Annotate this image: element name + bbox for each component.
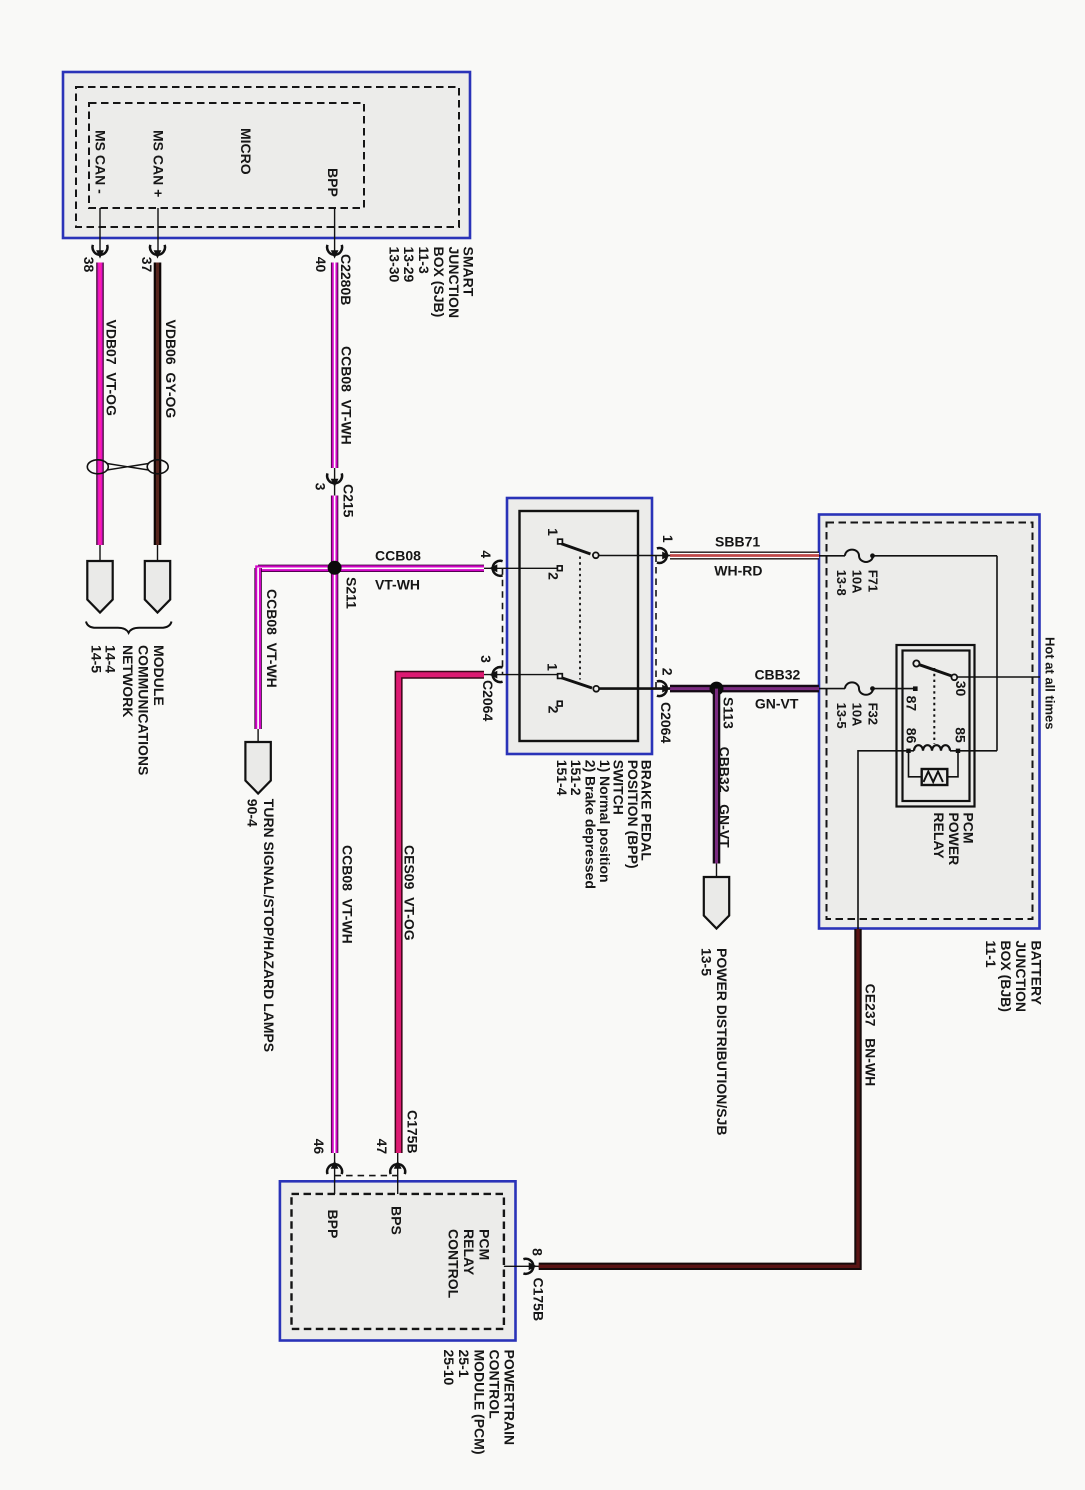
connector C175B pin 47	[390, 1160, 405, 1174]
BJB internal: coil right lead to hot bus	[950, 750, 997, 752]
terminal: module communications network wire VDB07	[87, 561, 112, 613]
SJB outer dashed boundary	[76, 87, 459, 227]
twisted pair loop left	[87, 460, 108, 474]
svg-text:C2280B: C2280B	[338, 254, 354, 305]
wire CCB08 VT-WH from SJB pin 40 to C215	[331, 263, 338, 469]
svg-text:S211: S211	[344, 577, 360, 609]
svg-text:MS CAN +: MS CAN +	[151, 130, 167, 197]
svg-text:MODULE: MODULE	[151, 645, 167, 706]
pin stub SJB pin 40	[334, 208, 336, 252]
svg-text:BPP: BPP	[325, 168, 341, 197]
BPP switch 1: blade	[562, 544, 591, 554]
connector dashed link C175B (pins 46-47)	[335, 1175, 398, 1177]
svg-text:VDB07 VT-OG: VDB07 VT-OG	[104, 320, 120, 417]
svg-text:PCM: PCM	[477, 1229, 493, 1260]
svg-text:40: 40	[313, 257, 329, 273]
svg-text:37: 37	[139, 257, 155, 273]
svg-text:C175B: C175B	[405, 1110, 421, 1154]
svg-text:MS CAN -: MS CAN -	[93, 130, 109, 194]
connector C175B pin 8	[523, 1259, 537, 1274]
pin line BPP pin 4	[484, 567, 559, 569]
relay economizer resistor box	[922, 769, 948, 785]
svg-text:NETWORK: NETWORK	[120, 645, 136, 717]
switch box: BRAKE PEDAL POSITION (BPP) SWITCH	[507, 498, 652, 754]
svg-text:13-5: 13-5	[699, 948, 715, 976]
connector C2064 pin 2	[657, 681, 671, 696]
pin line BPP pin 3	[484, 674, 557, 676]
svg-text:F32: F32	[866, 703, 881, 725]
svg-text:C215: C215	[340, 484, 356, 518]
svg-text:13-8: 13-8	[834, 570, 849, 596]
wire CBB32 GN-VT branch down to POWER DISTRIBUTION terminal	[713, 689, 721, 864]
svg-text:4: 4	[478, 550, 494, 558]
wire VDB07 VT-OG (MS CAN -)	[96, 263, 104, 546]
svg-text:CCB08 VT-WH: CCB08 VT-WH	[264, 589, 280, 688]
svg-text:BPP: BPP	[325, 1210, 341, 1239]
svg-text:2: 2	[659, 668, 675, 676]
junction S113	[710, 682, 724, 696]
svg-text:47: 47	[374, 1139, 390, 1155]
pin line BPP pin 1	[599, 555, 670, 557]
BJB internal: hot at all times line to relay contact 30	[957, 676, 1040, 678]
terminal: turn signal/stop/hazard lamps	[245, 742, 270, 794]
pin stub SJB pin 37	[157, 208, 159, 252]
relay box outer: PCM POWER RELAY	[897, 645, 975, 807]
svg-text:CBB32 GN-VT: CBB32 GN-VT	[717, 747, 733, 849]
svg-text:COMMUNICATIONS: COMMUNICATIONS	[136, 645, 152, 775]
svg-text:MODULE (PCM): MODULE (PCM)	[471, 1350, 487, 1455]
wire VDB06 GY-OG (MS CAN +)	[154, 263, 162, 546]
svg-text:CBB32: CBB32	[754, 667, 800, 683]
svg-text:Hot at all times: Hot at all times	[1043, 637, 1058, 729]
svg-text:CONTROL: CONTROL	[446, 1229, 462, 1299]
pin stub SJB pin 38	[99, 208, 101, 252]
svg-text:C175B: C175B	[531, 1278, 547, 1322]
svg-text:RELAY: RELAY	[461, 1229, 477, 1276]
stub to terminal (turn signal branch)	[257, 729, 259, 742]
pin stub PCM pin 47	[397, 1153, 399, 1194]
wire CBB32 GN-VT from BPP pin 2 through S113 to BJB	[670, 685, 819, 693]
BJB dashed boundary	[827, 523, 1033, 920]
connector C2064 pin 1	[657, 548, 671, 563]
connector C2064 pin 3	[489, 667, 503, 682]
twisted pair loop right	[147, 460, 168, 474]
connector C2064 pin 4	[489, 561, 503, 576]
svg-text:90-4: 90-4	[245, 799, 261, 827]
BPP inner solid boundary	[520, 511, 639, 741]
junction S211	[328, 561, 342, 575]
connector dashed link C2064 right (pins 1-2)	[655, 556, 657, 689]
twisted pair crossing lines	[107, 464, 149, 471]
svg-text:POWER: POWER	[946, 812, 962, 865]
connector C215 pin 3	[327, 473, 342, 487]
svg-text:2: 2	[546, 706, 562, 714]
connector C175B pin 46	[327, 1160, 342, 1174]
svg-text:85: 85	[952, 727, 968, 743]
svg-text:TURN SIGNAL/STOP/HAZARD LAMPS: TURN SIGNAL/STOP/HAZARD LAMPS	[261, 799, 277, 1052]
BPP switch 2: common contact	[593, 686, 599, 692]
relay linkage dotted	[933, 668, 935, 744]
svg-text:1: 1	[545, 528, 561, 536]
svg-text:25-10: 25-10	[441, 1350, 457, 1386]
svg-text:MICRO: MICRO	[238, 128, 254, 175]
svg-text:C2064: C2064	[480, 680, 496, 721]
connector C2280B pin 38	[93, 245, 108, 259]
svg-text:30: 30	[953, 681, 969, 697]
module box: POWERTRAIN CONTROL MODULE (PCM)	[280, 1181, 516, 1340]
BJB internal: hot vertical bus	[996, 556, 998, 751]
svg-text:11-3: 11-3	[416, 247, 432, 274]
svg-text:11-1: 11-1	[983, 940, 999, 967]
relay contact 87 (square)	[913, 686, 918, 691]
relay coil	[914, 745, 950, 751]
BPP switch mechanical linkage (dotted)	[579, 557, 581, 680]
svg-text:C2064: C2064	[658, 702, 674, 743]
wire CCB08 VT-WH from C215 through S211 to PCM pin 46	[331, 496, 338, 1154]
svg-text:SBB71: SBB71	[715, 534, 760, 550]
svg-text:2: 2	[546, 572, 562, 580]
BJB internal: F71 feed line	[819, 555, 845, 557]
svg-text:10A: 10A	[850, 570, 865, 594]
wire CE237 BN-WH from BJB to PCM pin 8	[539, 929, 858, 1266]
wire SBB71 WH-RD from BPP pin 1 to BJB	[670, 552, 819, 560]
svg-text:86: 86	[904, 728, 920, 744]
connector dashed link C2064 left (pins 4-3)	[502, 568, 504, 674]
svg-text:CONTROL: CONTROL	[486, 1350, 502, 1420]
svg-text:1: 1	[545, 663, 561, 671]
BJB internal: F32 feed line	[819, 688, 845, 690]
relay box inner	[903, 651, 970, 802]
terminal: module communications network wire VDB06	[145, 561, 170, 613]
svg-text:46: 46	[311, 1139, 327, 1155]
svg-text:3: 3	[478, 655, 494, 663]
svg-text:10A: 10A	[850, 703, 865, 727]
svg-text:POWER DISTRIBUTION/SJB: POWER DISTRIBUTION/SJB	[714, 948, 730, 1135]
svg-text:F71: F71	[866, 570, 881, 592]
relay economizer resistor branch	[909, 751, 959, 777]
PCM dashed boundary	[292, 1194, 504, 1329]
svg-text:151-4: 151-4	[554, 760, 570, 796]
svg-text:RELAY: RELAY	[931, 812, 947, 859]
pin stub PCM pin 46	[334, 1153, 336, 1194]
svg-text:14-5: 14-5	[89, 645, 105, 673]
svg-text:BOX (BJB): BOX (BJB)	[998, 940, 1014, 1012]
svg-text:S113: S113	[720, 697, 736, 729]
relay blade	[919, 665, 952, 676]
svg-text:BATTERY: BATTERY	[1028, 940, 1044, 1005]
terminal: power distribution/SJB	[704, 877, 729, 929]
wire CCB08 VT-WH horizontal branch from left corner through S211 to BPP pin 4	[258, 568, 484, 572]
svg-text:1: 1	[660, 535, 676, 543]
svg-text:13-29: 13-29	[401, 247, 417, 283]
relay contact 30 circle	[951, 674, 957, 680]
relay coil junction squares	[906, 749, 910, 753]
wire CCB08 VT-WH left branch down to TURN SIGNAL lamps terminal	[254, 568, 261, 729]
connector C2280B pin 37	[150, 245, 165, 259]
svg-text:VDB06 GY-OG: VDB06 GY-OG	[163, 320, 179, 419]
wire CES09 VT-OG from BPP pin 3 to PCM pin 47	[399, 675, 484, 1153]
svg-text:JUNCTION: JUNCTION	[446, 247, 462, 319]
svg-text:CE237 BN-WH: CE237 BN-WH	[862, 984, 878, 1087]
brace under module communications terminals	[86, 622, 172, 633]
svg-text:BPS: BPS	[388, 1206, 404, 1235]
svg-text:CCB08 VT-WH: CCB08 VT-WH	[339, 346, 355, 445]
svg-text:CCB08: CCB08	[375, 548, 421, 564]
pin line PCM pin 8	[504, 1265, 539, 1267]
through line at C215	[334, 466, 336, 497]
svg-text:CES09 VT-OG: CES09 VT-OG	[402, 845, 418, 941]
svg-text:3: 3	[313, 483, 329, 491]
svg-text:25-1: 25-1	[456, 1350, 472, 1378]
pin line BPP pin 2	[599, 687, 670, 690]
module box: SMART JUNCTION BOX (SJB)	[63, 72, 470, 238]
connector C2280B pin 40	[327, 245, 342, 259]
BPP switch 1: common contact	[593, 552, 599, 558]
relay common contact circle	[913, 660, 919, 666]
svg-text:13-5: 13-5	[834, 703, 849, 729]
stub to terminal (power distribution branch)	[716, 864, 718, 878]
svg-text:8: 8	[530, 1248, 546, 1256]
fuse F71 element	[845, 550, 873, 562]
SJB inner dashed boundary (MICRO)	[89, 103, 364, 208]
svg-text:GN-VT: GN-VT	[755, 695, 799, 711]
svg-text:38: 38	[81, 257, 97, 273]
stub to terminal (VDB06)	[157, 545, 159, 562]
BPP switch 2 (bottom): throw contact 1	[558, 674, 563, 679]
svg-text:POWERTRAIN: POWERTRAIN	[502, 1350, 518, 1446]
svg-text:JUNCTION: JUNCTION	[1013, 940, 1029, 1012]
BPP switch 2: throw contact 2	[557, 701, 562, 706]
module box: BATTERY JUNCTION BOX (BJB)	[819, 515, 1040, 929]
svg-text:VT-WH: VT-WH	[375, 577, 420, 593]
BPP switch 1: throw contact 2	[557, 566, 562, 571]
svg-text:WH-RD: WH-RD	[714, 563, 762, 579]
svg-text:CCB08 VT-WH: CCB08 VT-WH	[340, 845, 356, 944]
fuse F32 element	[845, 682, 873, 694]
BPP switch 1 (top): throw contact 1	[558, 539, 563, 544]
BJB internal: line from F32 to relay contact 87	[873, 688, 914, 690]
BPP switch 2: blade	[562, 678, 593, 688]
svg-text:BOX (SJB): BOX (SJB)	[431, 247, 447, 318]
BJB internal: line from F71 to hot vertical	[873, 555, 998, 557]
stub to terminal (VDB07)	[99, 545, 101, 562]
relay economizer resistor zigzag	[924, 772, 943, 783]
BJB internal: coil line to CE237 exit	[858, 751, 909, 929]
svg-text:13-30: 13-30	[386, 247, 402, 283]
svg-text:87: 87	[904, 696, 920, 712]
